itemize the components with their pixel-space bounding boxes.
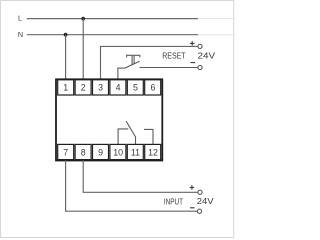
svg-text:1: 1	[63, 83, 68, 93]
svg-text:3: 3	[98, 83, 103, 93]
wire L faint continuation	[198, 18, 234, 20]
svg-text:12: 12	[148, 147, 158, 157]
label + (top supply)	[190, 41, 195, 46]
terminal +24V bottom circle	[198, 190, 202, 194]
terminal 1	[58, 80, 74, 95]
wire terminal 7 to -24V input	[66, 160, 198, 211]
svg-text:2: 2	[81, 83, 86, 93]
terminal 10	[110, 144, 126, 159]
svg-text:24V: 24V	[197, 197, 214, 206]
terminal 5	[127, 80, 143, 95]
actuator stem (double line)	[131, 56, 133, 65]
svg-text:N: N	[18, 30, 23, 39]
label - (bottom supply)	[190, 207, 195, 209]
terminal 12	[145, 144, 161, 159]
terminal 8	[75, 144, 91, 159]
left lead from terminal 4	[118, 68, 125, 79]
actuator cap with end ticks	[127, 55, 140, 57]
label + (bottom supply)	[190, 185, 195, 190]
terminal -24V bottom circle	[197, 209, 201, 213]
svg-text:9: 9	[98, 147, 103, 157]
terminal 2	[75, 80, 91, 95]
terminal 4	[110, 80, 126, 95]
wire terminal 3 to +24V	[101, 46, 198, 79]
terminal +24V top circle	[198, 44, 202, 48]
junction dot on L above terminal 2	[81, 17, 85, 21]
svg-text:11: 11	[131, 147, 140, 157]
terminal 7	[58, 144, 74, 159]
terminal 11	[127, 144, 143, 159]
svg-text:5: 5	[133, 83, 138, 93]
terminal 9	[93, 144, 109, 159]
relay changeover contact (10-11-12)	[118, 121, 153, 144]
svg-text:8: 8	[81, 147, 86, 157]
wire N to terminal 1	[65, 35, 67, 80]
right lead to -24V	[140, 67, 198, 69]
svg-text:7: 7	[63, 147, 68, 157]
wire N line	[27, 34, 198, 36]
wire terminal 8 to +24V input	[83, 160, 198, 192]
svg-text:10: 10	[113, 147, 123, 157]
terminal 3	[93, 80, 109, 95]
svg-text:INPUT: INPUT	[164, 197, 183, 206]
terminal -24V top circle	[198, 65, 202, 69]
wire L to terminal 2	[82, 19, 84, 80]
wire L line	[27, 18, 198, 20]
page border frame	[1, 1, 234, 238]
terminal 6	[145, 80, 161, 95]
wire N faint continuation	[198, 34, 234, 36]
relay module body U1	[56, 79, 162, 160]
label - (top supply)	[191, 62, 196, 64]
stationary contact from terminal 10	[118, 129, 128, 144]
svg-text:6: 6	[151, 83, 156, 93]
common moving blade from terminal 11	[126, 121, 136, 144]
svg-text:L: L	[18, 14, 22, 23]
svg-text:RESET: RESET	[162, 51, 185, 60]
moving blade	[125, 61, 140, 68]
stationary contact from terminal 12	[144, 129, 153, 144]
svg-text:24V: 24V	[198, 51, 216, 60]
junction dot on N above terminal 1	[64, 33, 68, 37]
push-button RESET (momentary, NO)	[118, 55, 198, 79]
svg-text:4: 4	[116, 83, 121, 93]
